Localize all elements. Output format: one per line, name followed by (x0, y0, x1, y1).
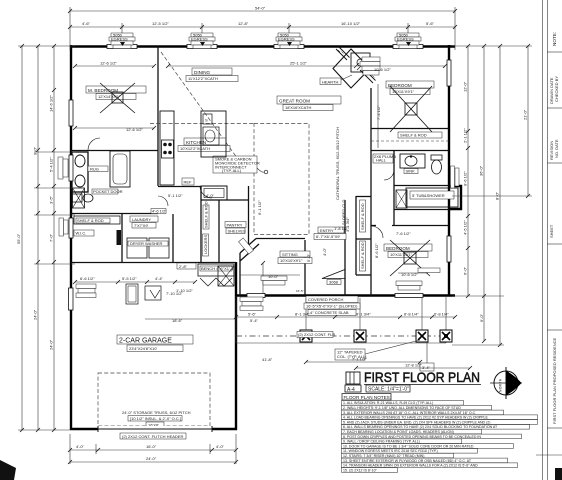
svg-text:16'-5"X5'-0"X9'-1" (SLOPED): 16'-5"X5'-0"X9'-1" (SLOPED) (306, 304, 358, 309)
svg-text:10'X10'X9'1": 10'X10'X9'1" (280, 258, 303, 263)
svg-text:SCALE: 1/4"=1'-0": SCALE: 1/4"=1'-0" (368, 387, 409, 393)
svg-text:10'X12'2"XCATH: 10'X12'2"XCATH (180, 146, 210, 151)
svg-text:S: S (205, 118, 208, 123)
svg-text:13. SHEET ENTIRE EXTERIOR W PL: 13. SHEET ENTIRE EXTERIOR W PLYWOOD OR O… (343, 459, 472, 463)
svg-text:12'-5 1/2": 12'-5 1/2" (152, 21, 169, 26)
svg-text:24'-0" STORAGE TRUSS, 6/12 PIT: 24'-0" STORAGE TRUSS, 6/12 PITCH (122, 410, 191, 415)
svg-text:5'-6": 5'-6" (426, 21, 435, 26)
svg-text:16'-10 1/2": 16'-10 1/2" (341, 21, 361, 26)
svg-text:24'-0": 24'-0" (146, 456, 157, 461)
svg-text:4'-0": 4'-0" (216, 444, 225, 449)
svg-text:8'-6 1/2": 8'-6 1/2" (374, 243, 379, 258)
svg-text:24'-0": 24'-0" (33, 309, 38, 320)
svg-text:LOCKERS: LOCKERS (203, 235, 208, 254)
svg-text:[10 1/2" INSUL. & 2'-0" O.C.]: [10 1/2" INSUL. & 2'-0" O.C.] (130, 416, 181, 421)
svg-text:FLOOR PLAN NOTES:: FLOOR PLAN NOTES: (344, 395, 391, 400)
svg-text:6'-0": 6'-0" (479, 313, 484, 322)
svg-text:HEARTH: HEARTH (322, 79, 338, 84)
svg-text:10'-6 1/2": 10'-6 1/2" (374, 67, 391, 72)
svg-text:21'-0": 21'-0" (523, 109, 528, 120)
svg-text:5'-4 1/2": 5'-4 1/2" (49, 157, 54, 172)
svg-text:12'-8 1/2": 12'-8 1/2" (405, 363, 422, 368)
svg-text:SHELF & ROD: SHELF & ROD (400, 133, 427, 138)
svg-text:4" CONCRETE SLAB: 4" CONCRETE SLAB (310, 310, 349, 315)
svg-text:4'-0": 4'-0" (206, 193, 215, 198)
svg-text:3068: 3068 (329, 280, 339, 285)
svg-text:7'-1 1/2": 7'-1 1/2" (352, 357, 367, 362)
svg-text:3. ALL EXTERIOR WALLS 2X6 AT: 3. ALL EXTERIOR WALLS 2X6 AT 16" O.C. AL… (343, 411, 476, 415)
svg-text:12'-8": 12'-8" (238, 21, 249, 26)
svg-text:SHELF & ROD: SHELF & ROD (360, 242, 365, 269)
svg-text:25'-1 1/2": 25'-1 1/2" (290, 61, 307, 66)
svg-text:12'-0": 12'-0" (463, 81, 468, 92)
svg-text:4'-6 1/2": 4'-6 1/2" (152, 209, 167, 214)
svg-text:9'-6 1/2": 9'-6 1/2" (463, 171, 468, 186)
svg-text:9'-1 3/4": 9'-1 3/4" (356, 312, 371, 317)
svg-text:14. TRANSOM HEADER SPAN ON EXT: 14. TRANSOM HEADER SPAN ON EXTERIOR WALL… (343, 464, 478, 468)
svg-text:14'-6 1/2": 14'-6 1/2" (49, 95, 54, 112)
svg-text:REF: REF (184, 179, 193, 184)
svg-text:6'-1 1/2": 6'-1 1/2" (257, 200, 262, 215)
svg-text:6. ALL WALLS BEARING OPENINGS: 6. ALL WALLS BEARING OPENINGS TO HAVE (2… (343, 425, 498, 429)
svg-text:12. STAIRS: 7 3/4" RISER (MAX): 12. STAIRS: 7 3/4" RISER (MAX) 10" TREAD… (343, 454, 424, 458)
svg-text:7'X7'X9': 7'X7'X9' (134, 223, 149, 228)
svg-text:7. EACH BEARING LOCATION & PO: 7. EACH BEARING LOCATION & POINT LOADS. … (343, 430, 454, 434)
svg-text:2. WALL HEIGHTS: 9'-1 1/8" UN: 2. WALL HEIGHTS: 9'-1 1/8" UNO. ALL DIME… (343, 406, 461, 410)
svg-text:COVERED PORCH: COVERED PORCH (308, 297, 343, 302)
svg-text:DINING: DINING (194, 70, 211, 75)
svg-text:9'-0": 9'-0" (33, 146, 38, 155)
svg-text:8'-1 3/4": 8'-1 3/4" (295, 312, 310, 317)
svg-text:SINK: SINK (406, 169, 416, 174)
svg-text:EGRESS: EGRESS (111, 36, 128, 41)
svg-text:6'-6 1/2": 6'-6 1/2" (80, 276, 95, 281)
svg-text:SHELF & ROD: SHELF & ROD (77, 218, 104, 223)
svg-text:1. ALL INSULATION: R-21 WALLS: 1. ALL INSULATION: R-21 WALLS, R-49 CLG … (343, 401, 433, 405)
svg-text:10'X11'X9'1": 10'X11'X9'1" (390, 252, 413, 257)
svg-text:SITTING: SITTING (282, 252, 298, 257)
svg-text:(TYP. ALL): (TYP. ALL) (222, 168, 242, 173)
svg-text:54'-0": 54'-0" (255, 6, 266, 11)
svg-text:5'-1 1/2": 5'-1 1/2" (168, 193, 183, 198)
svg-text:12'-6 1/2": 12'-6 1/2" (100, 61, 117, 66)
svg-text:LAUNDRY: LAUNDRY (132, 217, 151, 222)
svg-text:7'-0": 7'-0" (49, 233, 54, 242)
svg-text:6'-7"X6'-5"X9': 6'-7"X6'-5"X9' (316, 234, 340, 239)
svg-text:6'-8 1/4": 6'-8 1/4" (434, 312, 449, 317)
svg-text:55'-0": 55'-0" (16, 233, 21, 244)
svg-text:SHEET: SHEET (549, 224, 554, 238)
svg-text:5' TUB&SHOWER: 5' TUB&SHOWER (412, 193, 445, 198)
svg-text:HALL: HALL (376, 158, 387, 163)
svg-text:16'-0": 16'-0" (146, 444, 157, 449)
svg-text:2'-1 1/2": 2'-1 1/2" (463, 128, 468, 143)
svg-text:FIRST FLOOR PLAN PROPOSED RESI: FIRST FLOOR PLAN PROPOSED RESIDENCE (552, 338, 557, 424)
svg-text:5. AND (2) JACK STUDS UNDER E: 5. AND (2) JACK STUDS UNDER EA. END. (2)… (343, 420, 490, 424)
svg-text:SHELF & ROD: SHELF & ROD (204, 201, 209, 228)
svg-text:4'-0": 4'-0" (76, 444, 85, 449)
svg-text:4'-5 1/2": 4'-5 1/2" (463, 220, 468, 235)
svg-text:SHELF & ROD: SHELF & ROD (360, 203, 365, 230)
svg-text:5'-0": 5'-0" (306, 253, 311, 262)
svg-text:PANTRY: PANTRY (227, 222, 243, 227)
svg-text:7'-4 1/2": 7'-4 1/2" (376, 105, 381, 120)
svg-text:(2) 2X12 CONT. FLITCH HEADER: (2) 2X12 CONT. FLITCH HEADER (122, 434, 183, 439)
svg-text:W.I.C.: W.I.C. (76, 231, 87, 236)
svg-text:15. (2) 2X12 IS 8'-10": 15. (2) 2X12 IS 8'-10" (343, 468, 378, 472)
svg-text:41'-8": 41'-8" (262, 357, 273, 362)
svg-text:NORTH: NORTH (499, 378, 503, 392)
svg-text:POCKET DOOR: POCKET DOOR (93, 189, 123, 194)
svg-text:CATHEDRAL TRUSS, 6/12-35/12 PI: CATHEDRAL TRUSS, 6/12-35/12 PITCH (335, 127, 340, 200)
svg-text:10. DOOR TO GARAGE IS TO BE 1: 10. DOOR TO GARAGE IS TO BE 1 3/4" SOLID… (343, 444, 474, 448)
svg-text:FIRST FLOOR PLAN: FIRST FLOOR PLAN (364, 369, 480, 385)
svg-text:2-CAR GARAGE: 2-CAR GARAGE (119, 338, 172, 345)
svg-text:2'-8": 2'-8" (179, 264, 188, 269)
svg-text:23'4"X24'8"X10': 23'4"X24'8"X10' (129, 346, 158, 351)
svg-text:5'-6": 5'-6" (248, 312, 257, 317)
svg-text:RUG: RUG (90, 167, 99, 172)
svg-text:24'-0": 24'-0" (49, 339, 54, 350)
svg-text:16'-5": 16'-5" (296, 289, 304, 293)
svg-text:4'-6": 4'-6" (82, 21, 91, 26)
svg-text:GREAT ROOM: GREAT ROOM (279, 99, 310, 104)
svg-text:1'-10 1/2": 1'-10 1/2" (176, 288, 193, 293)
svg-text:CHECKED BY: CHECKED BY (554, 76, 559, 102)
svg-text:3'-1 3/4": 3'-1 3/4" (345, 217, 350, 232)
svg-text:7'-6 1/2": 7'-6 1/2" (396, 231, 411, 236)
svg-text:11'X12'2"XCATH: 11'X12'2"XCATH (188, 76, 218, 81)
svg-text:5'-5 1/2": 5'-5 1/2" (122, 276, 137, 281)
svg-text:DRYER WASHER: DRYER WASHER (130, 241, 163, 246)
svg-text:4'-0": 4'-0" (322, 247, 327, 256)
svg-text:11. WINDOW EGRESS MEETS IRC 20: 11. WINDOW EGRESS MEETS IRC 2018 SEC R31… (343, 449, 438, 453)
svg-text:6'-0": 6'-0" (463, 266, 468, 275)
svg-text:4. ALL LOAD BEARING OPENINGS: 4. ALL LOAD BEARING OPENINGS TO HAVE (2)… (343, 416, 489, 420)
svg-text:36'-0": 36'-0" (479, 165, 484, 176)
svg-text:SHELVES: SHELVES (228, 229, 246, 234)
svg-text:8. POST DOWN CRIPPLES AND POS: 8. POST DOWN CRIPPLES AND POSTED OPENING… (343, 435, 481, 439)
svg-text:5'-4": 5'-4" (250, 318, 259, 323)
svg-text:NO. DATE: NO. DATE (554, 139, 559, 158)
svg-text:6'-8 1/4": 6'-8 1/4" (404, 312, 419, 317)
svg-text:9. WALL / DROP CEILING FRAMIN: 9. WALL / DROP CEILING FRAMING (TYP. ALL… (343, 440, 420, 444)
svg-text:4'-4": 4'-4" (155, 276, 164, 281)
svg-text:NOTE:: NOTE: (552, 32, 557, 46)
svg-text:A-4: A-4 (347, 387, 355, 393)
svg-text:(2) 2X12 CONT. FLR: (2) 2X12 CONT. FLR (298, 332, 335, 337)
svg-text:3'-5": 3'-5" (49, 195, 54, 204)
svg-text:18'X16'XCATH: 18'X16'XCATH (285, 105, 311, 110)
svg-text:ENTRY: ENTRY (320, 228, 334, 233)
